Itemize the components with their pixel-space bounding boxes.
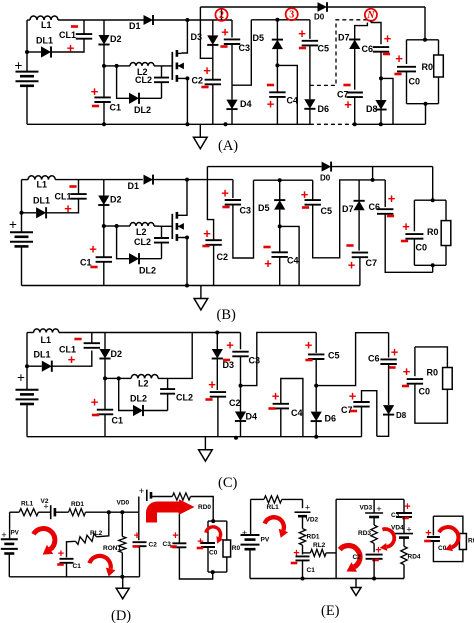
dashed cell boundary (A) [310,20,368,86]
node RON1 (D) [120,510,124,514]
wire load bottom (B) [414,264,446,266]
svg-text:+: + [305,338,313,353]
svg-text:VD0: VD0 [117,500,130,507]
svg-text:+: + [391,345,399,360]
wire (A) [117,65,130,67]
svg-text:D2: D2 [110,195,122,205]
label VD4 (E) [391,525,404,532]
wire D2 to node (C) [104,359,106,379]
PV + (D) [1,530,6,540]
C2 + (D) [134,530,140,542]
svg-text:C0: C0 [419,387,431,397]
wire to R0 (A) [438,40,440,55]
svg-text:+: + [395,51,403,66]
wire to R0 (B) [445,200,447,220]
wire (A) [27,19,30,21]
wire to C5 (A) [309,20,311,39]
wire cell left (E) [335,499,337,578]
svg-text:+: + [348,258,356,273]
V2 + (D) [43,502,48,512]
wire D2 to node (B) [103,205,105,226]
wire C4 top loop (C) [281,379,303,437]
C1 + (A) [91,84,99,99]
node load bottom (D) [211,570,215,574]
node load bottom (A) [424,102,428,106]
CL1 - (B) [69,185,76,188]
svg-text:L1: L1 [41,335,52,345]
label RL2 (E) [313,542,326,549]
wire to D3 (C) [216,333,218,350]
label PV (E) [261,537,270,544]
wire C5 to node (C) [315,359,317,386]
capacitor C3 (E) [396,513,412,517]
diode DL2 (C) [133,405,143,416]
svg-text:D6: D6 [318,104,330,114]
capacitor C1 (A) [94,97,110,102]
wire top (E) [282,498,303,500]
svg-text:C5: C5 [328,351,340,361]
wire load top (A) [407,39,439,41]
svg-text:C2: C2 [229,398,241,408]
wire PV top (E) [250,499,252,535]
wire C3 to node (C) [240,356,242,385]
svg-text:C0: C0 [409,77,421,87]
wire to C0 (E) [432,516,434,535]
node DL2 (C) [117,376,121,380]
wire L1 to D1 (A) [58,19,144,21]
svg-text:(E): (E) [321,603,340,619]
wire node to output rail (A) [381,78,393,124]
wire C4 to rail (B) [279,257,281,286]
ground rail right (A) [356,123,426,125]
wire C0 bottom (B) [413,239,415,266]
C6 + (B) [388,191,396,206]
label D1 (A) [129,21,141,31]
label DL1 (C) [34,350,51,360]
label D5 (B) [258,203,270,213]
svg-text:R0: R0 [427,368,439,378]
label C2 (C) [229,398,241,408]
current loop arrow 1 (E) [265,517,289,538]
svg-text:D3: D3 [223,360,235,370]
svg-text:+: + [43,502,48,512]
svg-text:C1: C1 [112,416,124,426]
wire load to rail (A) [425,104,427,125]
svg-text:VD2: VD2 [306,517,319,524]
svg-text:(C): (C) [218,475,238,491]
wire R0 bottom (D) [226,557,228,572]
label C2 (D) [149,542,158,549]
label D5 (A) [253,33,265,43]
svg-text:RD1: RD1 [71,501,84,508]
svg-text:C5: C5 [318,44,330,54]
label RD1 (E) [307,534,320,541]
capacitor C2 (C) [210,392,226,397]
wire load top (E) [433,516,463,533]
svg-text:C1: C1 [307,567,316,574]
capacitor CL2 (A) [154,78,169,83]
wire drain lead (A) [182,20,188,53]
svg-text:+: + [404,501,410,513]
node source (A) [185,76,189,80]
C6 - (C) [388,366,395,369]
wire to DL1 (B) [22,212,37,214]
label D3 (C) [223,360,235,370]
wire D4 to rail (C) [240,421,242,437]
ground rail (A) [27,123,310,125]
wire (C) [27,332,34,334]
wire to C6 (C) [388,333,390,358]
svg-text:+: + [403,364,411,379]
wire D8 bottom (C) [377,415,389,437]
svg-text:R0: R0 [427,227,439,237]
label DL2 (B) [139,266,156,276]
svg-text:D1: D1 [129,21,141,31]
diode D8 (A) [375,100,386,110]
diode D8 (C) [383,405,394,415]
wire node3 (A) [251,19,310,21]
label C0 (A) [409,77,421,87]
label (A) [218,138,238,154]
svg-text:CL1: CL1 [55,192,72,202]
svg-text:D8: D8 [366,104,378,114]
diode D6 (A) [304,99,315,109]
resistor RD4 (E) [401,546,407,564]
svg-text:C7: C7 [366,258,378,268]
inductor L1 (A) [30,16,58,20]
resistor R0 (C) [443,368,453,390]
svg-text:N: N [366,10,375,21]
svg-text:C2: C2 [192,76,204,86]
wire top left (D) [10,511,20,513]
svg-text:C2: C2 [217,252,229,262]
label D0 (B) [320,174,331,183]
diode D3 (A) [207,35,218,45]
C1 + (B) [89,242,97,257]
wire CL1 top (B) [78,180,80,195]
wire load top (C) [415,347,448,368]
svg-text:+: + [267,97,275,112]
node rail (B) [185,284,189,288]
wire load bottom (C) [415,384,448,424]
wire (B) [22,179,29,181]
diode D0 (B) [322,162,332,172]
C0 + (C) [403,364,411,379]
label RD1 (D) [71,501,84,508]
inductor L2 (A) [130,62,154,65]
ground rail (C) [27,436,362,438]
wire C3 to D4 node (A) [231,44,233,85]
C3 - (B) [222,206,229,209]
wire to CL2 (B) [161,226,163,238]
svg-text:D2: D2 [111,349,123,359]
label CL2 (A) [135,75,152,85]
label C0 (D) [209,550,218,557]
wire to CL2 (C) [167,378,169,389]
resistor RD1 (D) [69,509,86,516]
wire node to C1 (A) [103,66,105,98]
node C2/rail (E) [372,577,376,581]
C2 + (E) [375,545,381,557]
label DL2 (C) [130,394,147,404]
C3 + (B) [221,186,229,201]
svg-text:3: 3 [289,10,294,21]
svg-text:VD3: VD3 [360,505,373,512]
capacitor C2 (D) [133,542,147,546]
wire node3 (B) [254,179,313,181]
battery PV (D) [1,539,18,553]
resistor RD1 (E) [299,529,305,546]
wire top rail right (A) [327,6,425,8]
label D7 (B) [342,204,354,214]
capacitor C0 (C) [407,379,423,384]
C2 - (A) [201,86,208,89]
label C4 (A) [287,96,299,106]
transistor switch S (B) [172,212,184,241]
wire PV bottom (E) [249,549,251,578]
C3 + (E) [404,501,410,513]
label L1 (A) [41,20,52,30]
svg-text:L1: L1 [41,20,52,30]
label (D) [111,608,131,623]
node D5 (B) [278,178,282,182]
diode DL2 (A) [129,93,139,104]
battery + (C) [17,370,25,385]
svg-text:C4: C4 [291,408,303,418]
C0 - (B) [401,240,408,243]
svg-text:C2: C2 [149,542,158,549]
svg-text:D1: D1 [128,181,140,191]
C1 + (C) [91,395,99,410]
capacitor C3 (D) [172,543,186,547]
C3/D3 + (C) [226,338,234,353]
node 2 (A) [215,9,227,22]
diode D7 (B) [354,201,365,211]
wire C6 to load bottom (B) [385,214,433,272]
wire to C0 (A) [406,40,408,64]
diode D2 (B) [98,196,109,206]
C6 - (A) [383,53,390,56]
label CL2 (C) [176,393,193,403]
label R0 (E) [468,538,474,545]
wire node to DL2 (A) [117,66,129,98]
label C6 (A) [362,44,374,54]
svg-text:CL2: CL2 [176,393,193,403]
wire DL1 to CL1 (A) [51,39,84,52]
node D3 (C) [215,331,219,335]
svg-text:R0: R0 [232,545,241,552]
svg-text:C3: C3 [249,356,261,366]
wire gate lead (B) [162,225,173,227]
svg-text:+: + [139,486,144,496]
C2 - (B) [202,245,209,248]
C1 - (D) [57,563,64,566]
svg-text:2: 2 [219,10,224,21]
capacitor C5 (B) [305,200,321,205]
wire C0 bottom (D) [207,547,209,572]
label RD4 (E) [408,554,421,561]
wire top rail (B) [207,166,321,168]
resistor R0 (A) [434,55,444,77]
node source (B) [185,236,189,240]
wire VD2 to RD1 (E) [302,516,304,528]
C4 - (B) [263,246,270,249]
wire node to C4 (A) [276,65,278,92]
label D1 (B) [128,181,140,191]
wire node to DL2 (B) [117,226,129,259]
label C3 (E) [391,512,400,519]
svg-text:(B): (B) [217,307,237,323]
C1 - (C) [92,414,99,417]
C4 - (A) [267,84,274,87]
svg-text:+: + [221,186,229,201]
diode D5 (A) [272,40,283,50]
label C3 (D) [163,541,172,548]
wire R0 bottom (B) [445,246,447,266]
diode D3 (C) [212,349,223,359]
wire C1 to rail (C) [104,414,106,436]
wire DL1 to CL1 (B) [46,199,78,213]
label RL2 (D) [90,530,103,537]
diode D4 (A) [226,100,237,110]
wire rail to load (A) [424,7,426,40]
C5 - (B) [302,206,309,209]
node drain/D1 (A) [185,18,189,22]
current loop arrow 2 (E) [340,546,360,572]
label C1 (A) [110,103,122,113]
battery VD0 (D) [147,490,151,501]
label R0 (D) [232,545,241,552]
capacitor C6 (A) [373,47,389,52]
node N (A) [365,9,377,22]
label DL2 (A) [134,105,151,115]
C5 + (A) [298,26,306,41]
capacitor C2 (A) [205,80,221,85]
battery + (B) [9,217,17,232]
C0 + (D) [197,536,203,548]
node source/rail (A) [185,122,189,126]
svg-text:+: + [68,352,76,367]
resistor RL2 (D) [76,534,97,545]
label D4 (C) [246,412,258,422]
inductor L2 (C) [131,375,158,379]
wire battery to bottom rail (A) [26,87,28,125]
wire C1 to rail (D) [66,563,68,577]
battery + (A) [15,58,23,73]
capacitor C3 (C) [232,352,248,357]
node D2/C1/L2 (A) [102,64,106,68]
label R0 (B) [427,227,439,237]
capacitor C4 (A) [269,92,285,97]
label CL2 (B) [134,237,151,247]
wire cell top (E) [336,498,404,500]
svg-text:(D): (D) [111,608,131,623]
wire D5 to node (B) [279,210,281,227]
svg-text:+: + [67,41,75,56]
diode D1 (B) [144,175,154,185]
svg-text:C1: C1 [110,103,122,113]
label CL1 (A) [59,30,76,40]
wire to C3 (C) [240,333,242,350]
C4 + (C) [272,389,280,404]
svg-text:C1: C1 [80,258,92,268]
svg-text:+: + [221,25,229,40]
CL1 + (A) [67,41,75,56]
wire staircase to C6 (C) [316,333,388,386]
node load bottom (B) [431,263,435,267]
battery source (A) [16,72,39,86]
battery VD4 (E) [395,534,413,538]
diode D5 (B) [274,200,285,210]
wire VD0 to RD0 (D) [151,496,172,498]
label RD0 (D) [198,504,211,511]
svg-text:CL2: CL2 [135,75,152,85]
svg-text:C0: C0 [416,243,428,253]
label (E) [321,603,340,619]
wire battery to top rail (A) [26,20,28,72]
label L2 (A) [137,67,148,77]
svg-text:RL2: RL2 [90,530,103,537]
wire gate lead (A) [162,65,173,67]
node C1/rail (E) [301,577,305,581]
wire node to RL2 (D) [97,512,109,537]
wire top (C) [59,332,241,334]
wire staircase C5 to D7/C6 (B) [313,180,386,258]
label D7 (A) [338,33,350,43]
svg-text:+: + [203,226,211,241]
wire (B) [117,225,130,227]
C2 + (B) [203,226,211,241]
svg-text:C2: C2 [353,554,362,561]
svg-text:C5: C5 [321,206,333,216]
wire staircase to C5 (C) [241,332,317,385]
capacitor C3 (A) [224,39,240,44]
svg-text:+: + [402,219,410,234]
svg-text:D6: D6 [325,414,337,424]
C2 - (E) [372,559,379,562]
node load top (B) [431,198,435,202]
label C7 (C) [341,405,353,415]
label C1 (C) [112,416,124,426]
label C1 (B) [80,258,92,268]
node D2/C1/L2 (C) [103,376,107,380]
svg-text:R0: R0 [468,538,474,545]
svg-text:DL2: DL2 [134,105,151,115]
wire R0 to bottom (A) [438,77,440,104]
wire C1 to rail (B) [103,262,105,286]
wire battery bottom (C) [26,405,28,437]
diode D2 (A) [98,35,109,45]
svg-text:+: + [344,97,352,112]
svg-text:D8: D8 [396,411,407,420]
C2 - (C) [205,398,212,401]
wire RD1 to C1 (E) [302,545,304,554]
svg-text:C6: C6 [369,202,381,212]
wire DL2 to CL2 (A) [139,97,162,99]
C2 + (C) [208,377,216,392]
ground (D) [116,577,129,599]
C5 - (C) [305,359,312,362]
node C5/D6 (C) [314,384,318,388]
C6 + (A) [384,31,392,46]
wire node2 stub (A) [221,9,223,20]
wire drain lead (B) [182,180,188,216]
diode DL1 (A) [41,46,51,57]
wire C3 to load bottom (D) [179,547,212,579]
wire C1 to RL2 (E) [303,552,311,554]
label C5 (B) [321,206,333,216]
capacitor CL2 (B) [154,238,169,243]
